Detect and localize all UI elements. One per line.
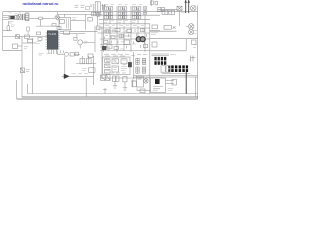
standby transformer box xyxy=(151,78,166,93)
wire rail x133 xyxy=(133,52,135,79)
transistor circle Q13 xyxy=(189,29,194,34)
wire circle drop xyxy=(64,56,66,74)
capacitor C21 xyxy=(169,10,175,14)
wire top right xyxy=(158,8,177,10)
wire top mid xyxy=(58,13,102,15)
wire input rail upper xyxy=(3,14,15,16)
electrolytic C33 xyxy=(142,67,145,73)
label marks near IC left xyxy=(36,42,41,44)
label 25V marks above frame xyxy=(75,5,93,7)
circle comp Q8 xyxy=(144,79,148,83)
wire to caps xyxy=(74,54,89,58)
big cap can C0 xyxy=(95,2,100,13)
ground sym 1 xyxy=(113,82,117,89)
frame right bus xyxy=(197,6,199,100)
capacitor C4 on wire xyxy=(97,12,100,16)
capacitor pair CB3 xyxy=(132,16,141,19)
component small right xyxy=(152,42,157,47)
box B5 xyxy=(82,68,95,73)
resistor R20 xyxy=(150,1,153,4)
arrow 2 xyxy=(187,0,190,3)
right edge comp xyxy=(192,40,196,44)
resistor R15b xyxy=(75,52,79,55)
resistor R21 xyxy=(155,2,158,5)
wire input rail lower xyxy=(3,18,15,20)
input labels above xyxy=(9,12,29,13)
label 2SC xyxy=(181,11,186,13)
capacitor C2 xyxy=(22,14,24,20)
wire rail x102 xyxy=(101,26,103,79)
top labels xyxy=(104,4,142,6)
wire to R2 xyxy=(29,17,39,19)
wire left bottom bend xyxy=(3,50,22,52)
mid-center row5 xyxy=(100,50,150,52)
electrolytic C30 xyxy=(136,58,139,64)
control box TL431 area xyxy=(103,57,131,75)
transformer T1 core lines xyxy=(152,54,170,56)
resistor R10 xyxy=(74,37,77,40)
wire rail x16 xyxy=(16,80,18,99)
parts above IC xyxy=(52,24,61,30)
mid-right wire row1 xyxy=(150,30,177,32)
diode D10 xyxy=(101,75,106,81)
choke L1 xyxy=(25,13,29,21)
capacitor pair CT2 top xyxy=(118,7,127,10)
capacitor pair CA1 xyxy=(104,12,113,15)
capacitor CC2 xyxy=(86,59,91,64)
wire R2 drop xyxy=(39,20,41,27)
fuse F2 xyxy=(7,21,10,31)
wire bottom bend xyxy=(137,88,150,90)
mid-center row4 xyxy=(100,44,131,46)
wire rail x148 xyxy=(149,24,151,94)
transistor Q10 xyxy=(177,6,182,10)
component on x97 xyxy=(97,26,101,30)
capacitor pair CT1 top xyxy=(104,7,113,10)
svg-text:TL494: TL494 xyxy=(48,32,57,36)
ground sym 2 xyxy=(123,82,127,91)
wire drop x186 xyxy=(185,39,187,51)
electrolytic C31 xyxy=(142,58,145,64)
IC U1 TL494 xyxy=(47,31,58,50)
IC U1 pins left xyxy=(46,33,48,49)
cap ladder row2 xyxy=(96,14,160,16)
connector J1 outline boxes xyxy=(161,66,170,72)
wire drops from IC area xyxy=(61,51,64,54)
diode D13 xyxy=(123,77,127,82)
mid-center extra segments xyxy=(100,31,131,47)
dark component on standby xyxy=(155,79,160,84)
resistor R25 xyxy=(144,44,148,47)
diode cluster D2 xyxy=(86,7,90,10)
bridge rectifier BR1 xyxy=(55,15,60,20)
wire above IC xyxy=(36,25,60,27)
mid band labels xyxy=(105,25,144,50)
resistor R18 xyxy=(111,36,115,39)
ground bus bottom xyxy=(17,98,198,100)
transistor Q3 xyxy=(77,34,95,49)
frame left bus xyxy=(2,12,4,51)
wire rail x22 xyxy=(21,37,23,98)
dark opto box xyxy=(102,46,106,50)
cap ladder rails xyxy=(104,6,146,26)
filter block X-cap dark xyxy=(11,16,15,18)
resistor R2 xyxy=(39,17,42,20)
wire rail x32 xyxy=(32,39,34,94)
ground drop x105 xyxy=(103,88,107,94)
top-right: stub xyxy=(151,0,153,6)
small comp upper cluster xyxy=(27,27,30,35)
wire box to top xyxy=(63,14,65,17)
box on IC pin xyxy=(64,31,70,34)
svg-text:radiofanat.narod.ru: radiofanat.narod.ru xyxy=(23,1,60,6)
transistor Q5 xyxy=(140,37,145,42)
varistor RV1 xyxy=(18,15,21,20)
component box X1 xyxy=(13,44,18,49)
wire rail x93 xyxy=(93,56,95,85)
label right of standby xyxy=(168,89,173,91)
lower labels xyxy=(104,21,136,23)
mid-right wire row2 xyxy=(150,38,198,40)
comp mid bottom xyxy=(131,79,136,87)
wire right inner vertical xyxy=(194,77,196,97)
box on rail x85 xyxy=(88,18,93,22)
box internal x marks xyxy=(105,59,119,68)
transformer T1 label xyxy=(170,54,176,56)
resistor R19 xyxy=(127,29,132,32)
capacitor pair CB2 xyxy=(118,16,127,19)
capacitor pair CA3 xyxy=(132,12,141,15)
small parts left of IC xyxy=(37,32,43,40)
selector box SW1 xyxy=(59,17,71,30)
wire X1 to x22 xyxy=(18,45,23,47)
mid band tick texture xyxy=(105,29,147,49)
wire rail x86 xyxy=(85,78,87,97)
IC U1 pins right xyxy=(58,33,60,49)
capacitor C3 on wire xyxy=(92,12,96,16)
stub wires right of standby xyxy=(166,81,175,84)
mid-center row1 xyxy=(98,27,151,29)
wire IC drops xyxy=(49,49,56,54)
label marks on wire xyxy=(72,73,89,75)
transformer T2 aux xyxy=(164,26,176,30)
ground bus top xyxy=(28,93,198,95)
wire input mid xyxy=(3,17,26,19)
wire IC right row1 xyxy=(60,30,98,32)
bottom mid wire xyxy=(100,77,150,79)
label near Q3 xyxy=(84,41,88,43)
cap ladder row4 xyxy=(99,23,150,25)
mid-center row3 xyxy=(100,38,150,40)
wire IC right row2 xyxy=(60,33,86,35)
mid-right wire row3 xyxy=(150,50,186,52)
mid-center row2 xyxy=(98,32,151,34)
frame top bus xyxy=(3,11,198,13)
cluster R6 xyxy=(28,39,33,42)
mid-center rails xyxy=(104,26,146,52)
resistor R13 xyxy=(124,40,130,45)
wire under caps xyxy=(76,63,96,65)
arrow 1 xyxy=(184,0,187,3)
electrolytic C32 xyxy=(136,67,139,73)
diode D11 xyxy=(106,75,110,81)
wire double row right a xyxy=(134,75,198,77)
labels above box xyxy=(104,54,147,56)
capacitor pair CT3 top xyxy=(132,7,141,10)
resistor R12 xyxy=(115,28,120,31)
resistor R15 xyxy=(70,53,74,56)
wire HV vertical 1 xyxy=(185,0,187,13)
capacitor pair CB1 xyxy=(104,16,113,19)
wire rail x85 xyxy=(84,14,86,29)
small comp near bus xyxy=(140,89,145,93)
transistor Q7 dark xyxy=(62,74,95,79)
resistor R24 xyxy=(114,46,119,49)
transistor circle Q12 xyxy=(186,24,194,30)
cap ladder row3 xyxy=(99,18,150,20)
wire C0 left xyxy=(93,4,95,12)
cap right edge pair xyxy=(191,56,196,62)
input terminal dots xyxy=(9,17,11,19)
resistor R22 xyxy=(141,29,145,32)
wire bridge up xyxy=(56,12,58,15)
capacitor pair CA2 xyxy=(118,12,127,15)
transformer T1 windings dark grid xyxy=(154,57,166,65)
label C5 xyxy=(73,18,77,20)
capacitor CC1 xyxy=(80,59,85,64)
capacitor C1 xyxy=(15,15,18,19)
resistor R23 xyxy=(104,40,108,43)
cluster R5 xyxy=(25,35,30,38)
wire cluster xyxy=(22,42,36,44)
box comp B10 xyxy=(136,76,143,87)
zener cluster bottom-left xyxy=(20,68,30,73)
capacitor C20 xyxy=(162,10,168,14)
capacitor bars right of C0 xyxy=(102,4,106,11)
thermistor TH1 on wire xyxy=(16,35,20,39)
mid-right parts left xyxy=(150,25,160,31)
labels under IC xyxy=(39,53,52,55)
label marks xyxy=(151,33,158,35)
ground bus mid xyxy=(22,96,198,98)
transistor Q4 xyxy=(136,37,141,42)
capacitor CT4 top xyxy=(143,7,147,10)
box right of caps xyxy=(88,54,93,58)
resistor R17 xyxy=(119,35,124,38)
resistor R14 xyxy=(107,45,112,48)
resistor R11 xyxy=(105,30,110,33)
wire double row right b xyxy=(134,76,198,78)
capacitor C19 xyxy=(143,12,147,15)
wire box to rail xyxy=(71,19,86,21)
dark vertical bus x186 xyxy=(185,72,187,94)
cluster labels xyxy=(24,37,35,49)
wire rail x27 xyxy=(27,84,29,94)
transistor Q11 circle xyxy=(190,5,196,11)
lower-left: transistor Q6 xyxy=(58,51,69,57)
small box pair top right of ladder xyxy=(158,8,165,12)
wire HV vertical 2 xyxy=(188,0,190,13)
diode D12 xyxy=(113,76,120,82)
wire mid-left long xyxy=(3,36,48,38)
wire Q10 drop xyxy=(179,11,181,27)
wire rail x97 xyxy=(95,16,98,52)
IC TL431 dark xyxy=(128,62,131,67)
label marks left xyxy=(11,25,15,27)
wire R2 to bridge xyxy=(42,17,55,19)
label 220V xyxy=(9,22,14,23)
wire left short xyxy=(3,30,12,32)
right edge labels xyxy=(193,31,197,48)
comp right of standby xyxy=(172,80,177,86)
wire under connector xyxy=(162,73,190,75)
connector J1 dark pins xyxy=(168,65,188,72)
label in standby box xyxy=(153,90,159,92)
